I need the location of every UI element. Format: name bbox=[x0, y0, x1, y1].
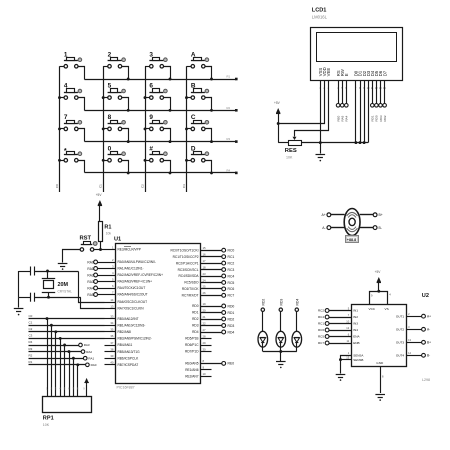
svg-text:B-: B- bbox=[379, 226, 382, 230]
svg-text:+5V: +5V bbox=[96, 193, 103, 197]
svg-text:RD1: RD1 bbox=[228, 311, 235, 315]
svg-text:RA5/AN4/SS/C2OUT: RA5/AN4/SS/C2OUT bbox=[118, 293, 148, 297]
svg-text:17: 17 bbox=[203, 259, 207, 263]
svg-text:RA4/T0CKI/C1OUT: RA4/T0CKI/C1OUT bbox=[118, 286, 146, 290]
svg-text:29: 29 bbox=[203, 341, 207, 345]
svg-text:RA1/AN1/C12IN1-: RA1/AN1/C12IN1- bbox=[118, 267, 144, 271]
svg-text:RE1/AN6: RE1/AN6 bbox=[185, 368, 199, 372]
svg-text:R3: R3 bbox=[227, 137, 231, 141]
svg-text:33: 33 bbox=[110, 314, 114, 318]
svg-text:28: 28 bbox=[203, 334, 207, 338]
svg-text:ENA: ENA bbox=[353, 335, 360, 339]
svg-text:RD3: RD3 bbox=[279, 299, 283, 306]
svg-text:RD3: RD3 bbox=[192, 324, 199, 328]
svg-text:21: 21 bbox=[203, 315, 207, 319]
svg-text:RC2/P1A/CCP1: RC2/P1A/CCP1 bbox=[176, 261, 199, 265]
svg-text:RB4/AN11: RB4/AN11 bbox=[118, 343, 133, 347]
svg-text:36: 36 bbox=[110, 334, 114, 338]
svg-text:RD4: RD4 bbox=[295, 299, 299, 306]
svg-text:RA0: RA0 bbox=[91, 363, 97, 367]
svg-text:40: 40 bbox=[110, 361, 114, 365]
svg-text:RB5/AN13/T1G: RB5/AN13/T1G bbox=[118, 350, 141, 354]
svg-text:35: 35 bbox=[110, 328, 114, 332]
svg-text:D7: D7 bbox=[382, 70, 387, 76]
svg-text:RP1: RP1 bbox=[43, 416, 54, 422]
svg-text:R1: R1 bbox=[227, 75, 231, 79]
svg-text:C2: C2 bbox=[141, 184, 145, 188]
svg-text:IN2: IN2 bbox=[353, 315, 358, 319]
svg-text:RC4: RC4 bbox=[318, 315, 324, 319]
svg-text:10K: 10K bbox=[286, 155, 293, 159]
svg-text:RA7/OSC1/CLKIN: RA7/OSC1/CLKIN bbox=[118, 307, 145, 311]
svg-text:RD4: RD4 bbox=[228, 330, 235, 334]
svg-text:RD5/P1B: RD5/P1B bbox=[185, 337, 198, 341]
svg-text:RA1: RA1 bbox=[87, 267, 93, 271]
svg-text:RC6: RC6 bbox=[228, 287, 235, 291]
svg-text:OUT3: OUT3 bbox=[396, 341, 405, 345]
svg-text:VEE: VEE bbox=[326, 68, 331, 77]
svg-text:24: 24 bbox=[203, 278, 207, 282]
svg-text:B+: B+ bbox=[379, 213, 383, 217]
svg-text:+88.8: +88.8 bbox=[347, 238, 356, 242]
svg-text:R2: R2 bbox=[29, 353, 33, 357]
svg-text:RC3: RC3 bbox=[228, 268, 235, 272]
svg-text:19: 19 bbox=[203, 302, 207, 306]
svg-text:38: 38 bbox=[110, 347, 114, 351]
svg-text:RC5/SDO: RC5/SDO bbox=[184, 281, 199, 285]
svg-text:LCD1: LCD1 bbox=[312, 8, 327, 14]
svg-text:R4: R4 bbox=[29, 340, 33, 344]
svg-text:RB3/AN9/PGM/C12IN2-: RB3/AN9/PGM/C12IN2- bbox=[118, 337, 152, 341]
svg-text:RA2: RA2 bbox=[87, 273, 93, 277]
svg-text:RA2/AN2/VREF-/CVREF/C2IN+: RA2/AN2/VREF-/CVREF/C2IN+ bbox=[118, 273, 164, 277]
svg-text:RD2: RD2 bbox=[228, 317, 235, 321]
svg-text:RA4: RA4 bbox=[345, 115, 349, 121]
svg-text:RB6/ICSPCLK: RB6/ICSPCLK bbox=[118, 356, 140, 360]
svg-text:R4: R4 bbox=[227, 168, 231, 172]
svg-text:C: C bbox=[191, 114, 196, 121]
svg-text:CRYSTAL: CRYSTAL bbox=[58, 290, 73, 294]
svg-text:34: 34 bbox=[110, 321, 114, 325]
svg-text:15: 15 bbox=[203, 246, 207, 250]
svg-text:RC0/T1OSO/T1CKI: RC0/T1OSO/T1CKI bbox=[171, 248, 199, 252]
svg-text:E: E bbox=[344, 73, 349, 76]
svg-text:8: 8 bbox=[108, 114, 112, 121]
svg-text:13: 13 bbox=[110, 304, 114, 308]
svg-text:22: 22 bbox=[203, 321, 207, 325]
svg-text:RD4: RD4 bbox=[192, 330, 199, 334]
svg-text:RC1/T1OSI/CCP2: RC1/T1OSI/CCP2 bbox=[173, 255, 199, 259]
svg-text:C3: C3 bbox=[182, 184, 186, 188]
svg-text:RA6/OSC2/CLKOUT: RA6/OSC2/CLKOUT bbox=[118, 300, 148, 304]
svg-text:RC2: RC2 bbox=[318, 309, 324, 313]
svg-text:RA0/AN0/ULPWU/C12IN0-: RA0/AN0/ULPWU/C12IN0- bbox=[118, 260, 156, 264]
svg-text:VS: VS bbox=[385, 307, 389, 311]
svg-text:GND: GND bbox=[376, 361, 384, 365]
svg-text:RC7/RX/DT: RC7/RX/DT bbox=[182, 294, 199, 298]
svg-text:C3: C3 bbox=[29, 334, 33, 338]
svg-text:26: 26 bbox=[203, 291, 207, 295]
svg-text:RD7/P1D: RD7/P1D bbox=[185, 350, 199, 354]
svg-text:37: 37 bbox=[110, 341, 114, 345]
svg-text:RE3/MCLR/VPP: RE3/MCLR/VPP bbox=[118, 248, 141, 252]
svg-text:10K: 10K bbox=[43, 423, 50, 427]
svg-text:B-: B- bbox=[427, 354, 430, 358]
svg-text:A-: A- bbox=[322, 226, 325, 230]
svg-text:16: 16 bbox=[203, 252, 207, 256]
svg-text:RC1: RC1 bbox=[228, 255, 235, 259]
svg-text:RD2: RD2 bbox=[383, 115, 387, 121]
svg-text:RC4/SDI/SDA: RC4/SDI/SDA bbox=[178, 274, 199, 278]
svg-text:RD3: RD3 bbox=[228, 324, 235, 328]
svg-text:U1: U1 bbox=[114, 237, 121, 243]
svg-text:RC3/SCK/SCL: RC3/SCK/SCL bbox=[178, 268, 199, 272]
svg-text:RD1: RD1 bbox=[192, 311, 199, 315]
svg-text:RA4: RA4 bbox=[87, 286, 93, 290]
svg-text:+5V: +5V bbox=[375, 270, 382, 274]
svg-text:RA3: RA3 bbox=[84, 343, 90, 347]
svg-text:RB0/AN12/INT: RB0/AN12/INT bbox=[118, 317, 139, 321]
svg-text:RA3: RA3 bbox=[87, 280, 93, 284]
svg-text:RB7/ICSPDAT: RB7/ICSPDAT bbox=[118, 363, 139, 367]
svg-text:RA0: RA0 bbox=[87, 260, 93, 264]
svg-text:RD0: RD0 bbox=[228, 304, 235, 308]
svg-text:RA2: RA2 bbox=[86, 350, 92, 354]
svg-text:39: 39 bbox=[110, 354, 114, 358]
svg-text:OUT4: OUT4 bbox=[396, 354, 405, 358]
svg-text:18: 18 bbox=[203, 265, 207, 269]
svg-text:20M: 20M bbox=[58, 282, 69, 288]
svg-text:+5V: +5V bbox=[274, 101, 281, 105]
svg-text:R2: R2 bbox=[227, 106, 231, 110]
svg-text:RST: RST bbox=[80, 236, 92, 242]
svg-text:9: 9 bbox=[149, 114, 153, 121]
svg-text:IN4: IN4 bbox=[353, 328, 358, 332]
svg-text:RE0: RE0 bbox=[228, 362, 235, 366]
svg-text:RE0/AN5: RE0/AN5 bbox=[185, 362, 199, 366]
svg-text:RB1/AN10/C12IN3-: RB1/AN10/C12IN3- bbox=[118, 323, 146, 327]
svg-text:23: 23 bbox=[203, 272, 207, 276]
svg-text:RC2: RC2 bbox=[228, 261, 235, 265]
svg-text:LM016L: LM016L bbox=[312, 15, 328, 20]
svg-text:C1: C1 bbox=[99, 184, 103, 188]
svg-text:C1: C1 bbox=[29, 320, 33, 324]
svg-text:IN1: IN1 bbox=[353, 309, 358, 313]
svg-text:RC6/TX/CK: RC6/TX/CK bbox=[182, 287, 200, 291]
svg-text:RC7: RC7 bbox=[228, 294, 235, 298]
svg-text:U2: U2 bbox=[422, 293, 429, 299]
svg-text:R1: R1 bbox=[104, 224, 111, 230]
svg-text:RC5: RC5 bbox=[318, 335, 324, 339]
svg-text:C0: C0 bbox=[55, 184, 59, 188]
svg-text:C2: C2 bbox=[29, 327, 33, 331]
svg-text:RE2/AN7: RE2/AN7 bbox=[185, 375, 199, 379]
svg-text:SENSB: SENSB bbox=[353, 358, 363, 362]
svg-text:RD2: RD2 bbox=[192, 317, 199, 321]
svg-text:27: 27 bbox=[203, 328, 207, 332]
svg-text:PIC16F887: PIC16F887 bbox=[117, 385, 135, 389]
svg-text:RC6: RC6 bbox=[318, 328, 324, 332]
svg-text:10: 10 bbox=[203, 372, 207, 376]
svg-text:ENB: ENB bbox=[353, 341, 359, 345]
svg-text:R1: R1 bbox=[29, 360, 33, 364]
svg-text:RD2: RD2 bbox=[261, 299, 265, 306]
svg-text:R3: R3 bbox=[29, 347, 33, 351]
svg-text:30: 30 bbox=[203, 347, 207, 351]
svg-text:RB2/AN8: RB2/AN8 bbox=[118, 330, 132, 334]
svg-text:C0: C0 bbox=[29, 314, 33, 318]
svg-text:RC5: RC5 bbox=[228, 281, 235, 285]
svg-text:L298: L298 bbox=[422, 378, 430, 382]
svg-text:RC7: RC7 bbox=[318, 341, 324, 345]
svg-text:RA5: RA5 bbox=[87, 293, 93, 297]
svg-text:IN3: IN3 bbox=[353, 322, 358, 326]
svg-text:RES: RES bbox=[285, 148, 297, 154]
svg-text:RA3/AN3/VREF+/C1IN+: RA3/AN3/VREF+/C1IN+ bbox=[118, 280, 153, 284]
svg-text:A+: A+ bbox=[321, 213, 325, 217]
svg-text:VCC: VCC bbox=[369, 307, 376, 311]
svg-text:RD6/P1C: RD6/P1C bbox=[185, 343, 199, 347]
svg-text:OUT1: OUT1 bbox=[396, 314, 405, 318]
svg-text:20: 20 bbox=[203, 308, 207, 312]
svg-text:A-: A- bbox=[427, 328, 430, 332]
svg-text:A+: A+ bbox=[427, 315, 431, 319]
svg-text:RA1: RA1 bbox=[88, 356, 94, 360]
svg-text:OUT2: OUT2 bbox=[396, 328, 405, 332]
svg-text:RC4: RC4 bbox=[228, 274, 235, 278]
svg-text:10k: 10k bbox=[106, 231, 112, 235]
svg-text:14: 14 bbox=[110, 298, 114, 302]
svg-text:7: 7 bbox=[64, 114, 68, 121]
svg-text:RC1: RC1 bbox=[318, 322, 324, 326]
svg-text:B+: B+ bbox=[427, 341, 431, 345]
svg-text:RD0: RD0 bbox=[192, 304, 199, 308]
svg-text:RC0: RC0 bbox=[228, 249, 235, 253]
